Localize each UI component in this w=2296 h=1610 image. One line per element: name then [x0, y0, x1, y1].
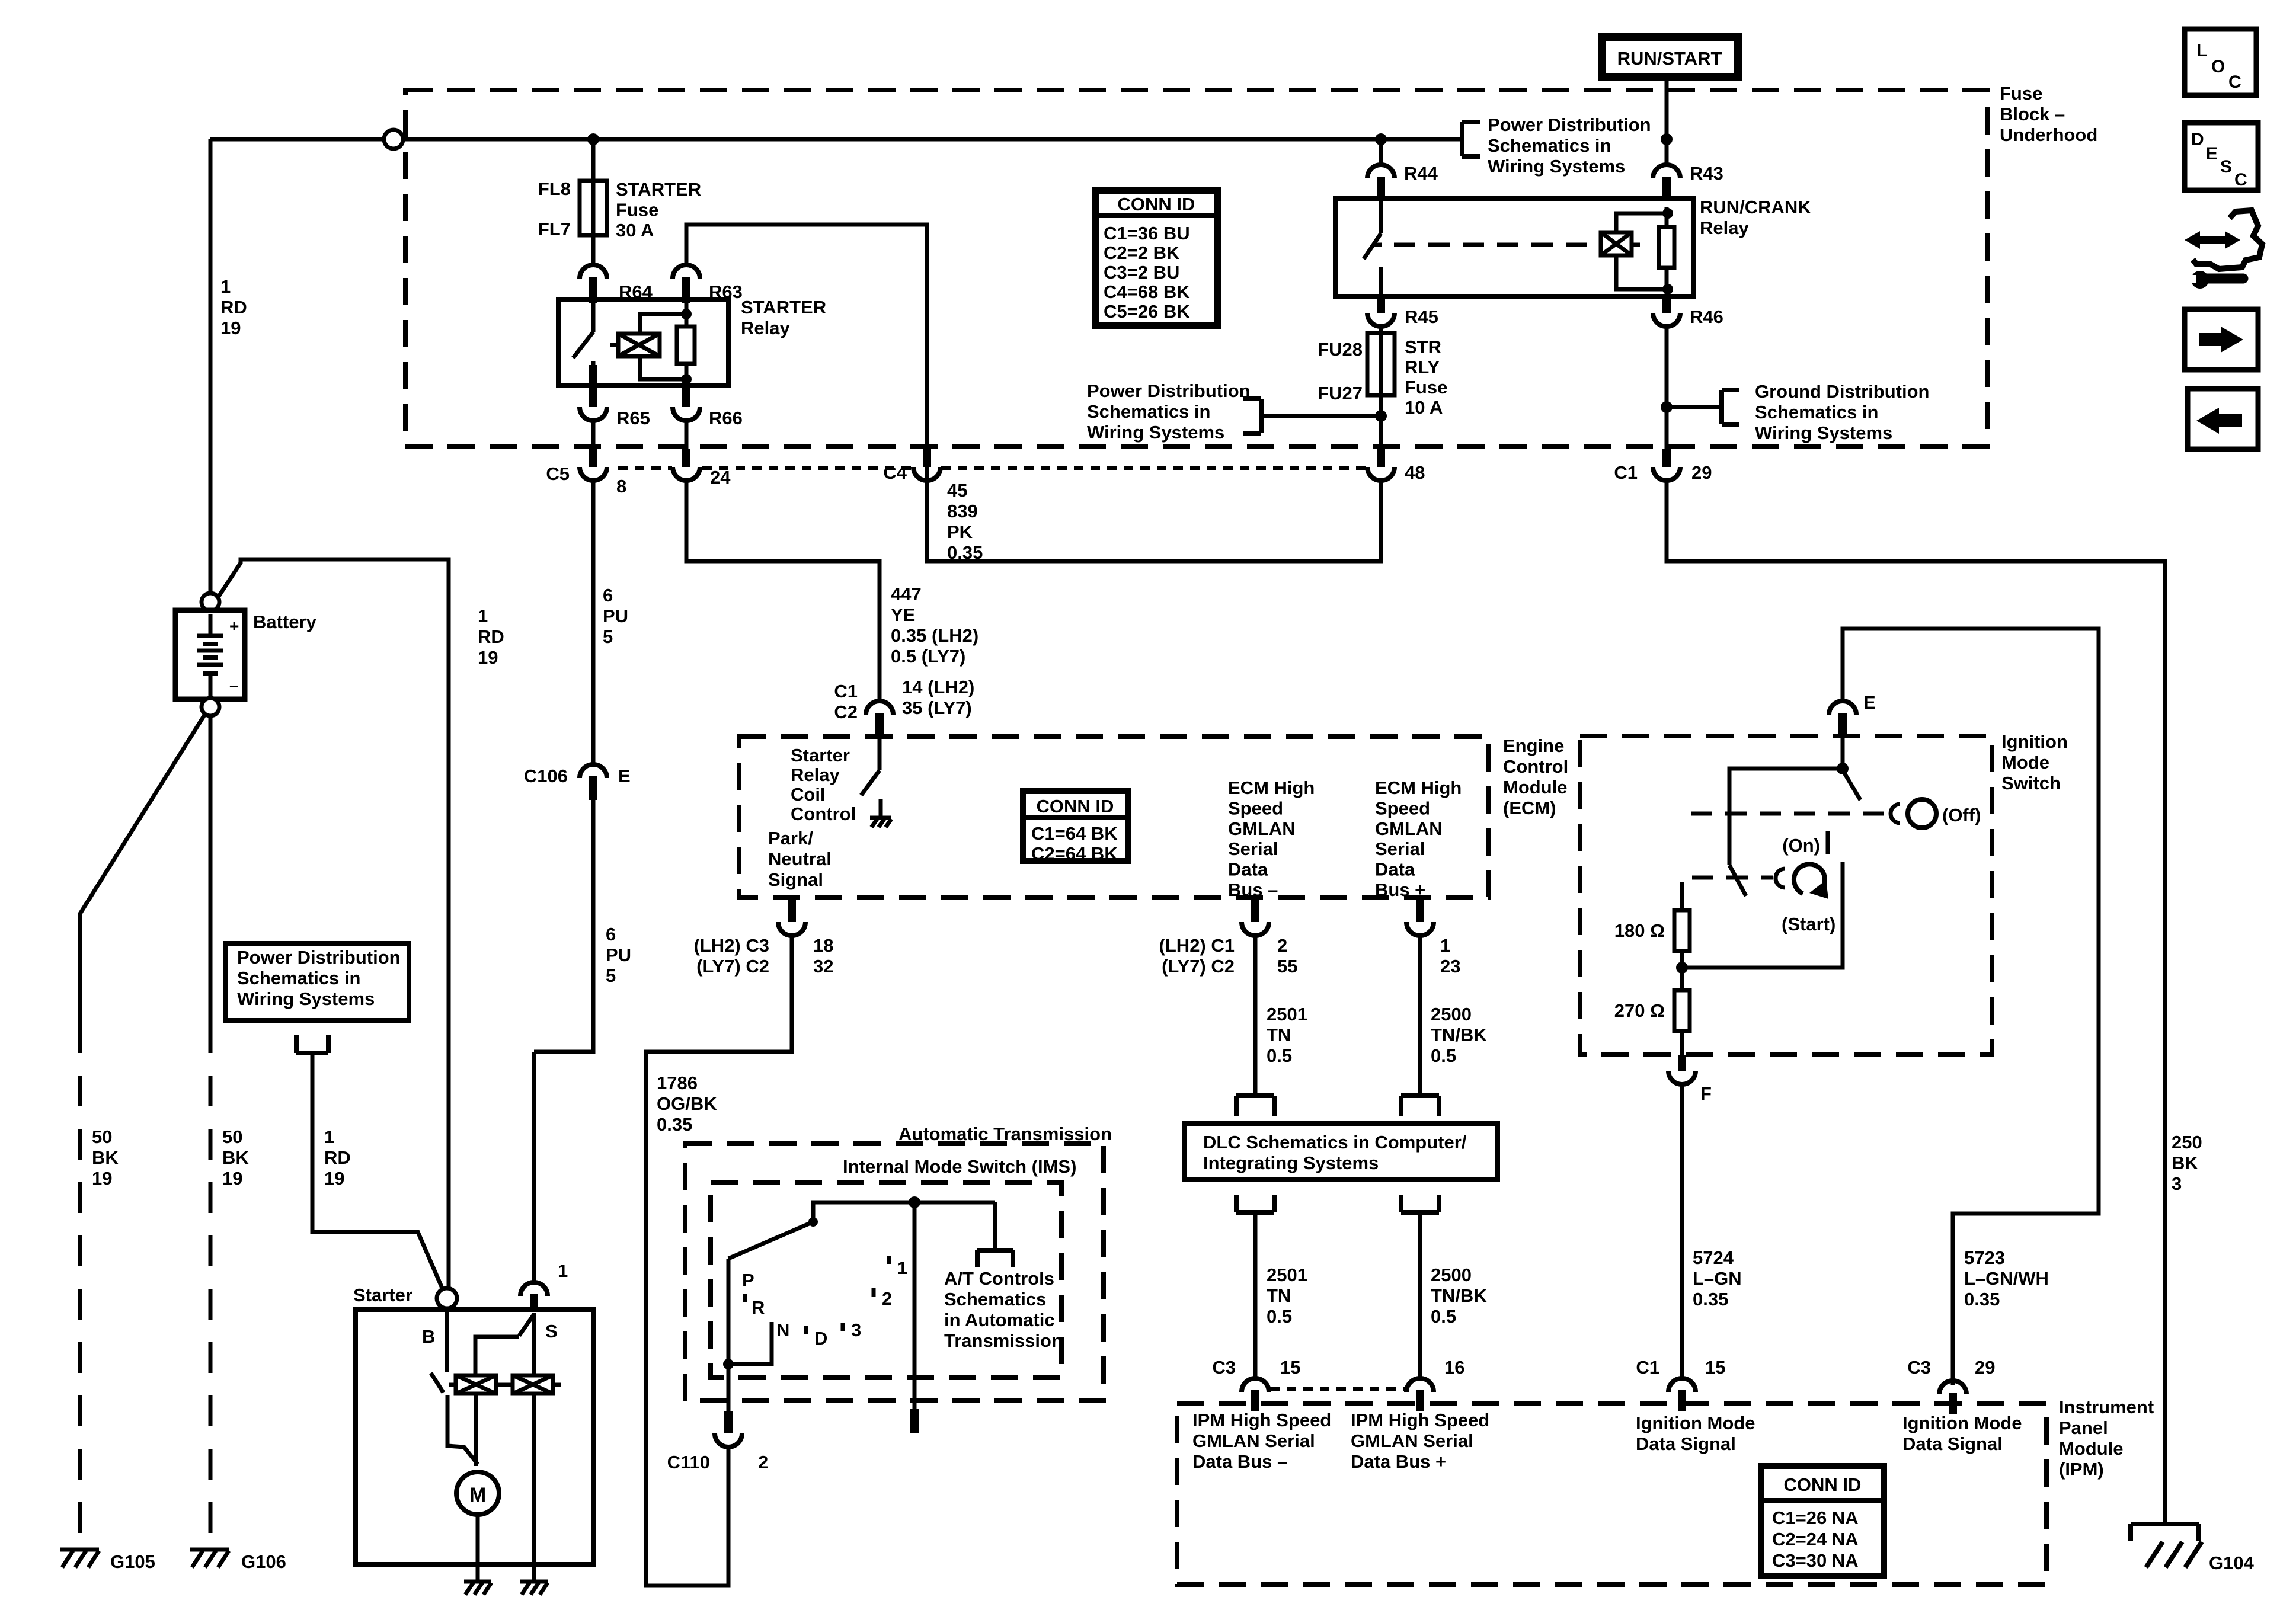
connector C106-E inline [580, 764, 607, 800]
svg-text:48: 48 [1405, 462, 1425, 483]
label 250 BK 3 [2172, 1132, 2202, 1194]
connector C110 [715, 1411, 742, 1447]
svg-text:0.35: 0.35 [1693, 1289, 1728, 1310]
label A/T Controls Schematics in Automatic Transmission [944, 1268, 1063, 1351]
ground starter solenoid [520, 1582, 548, 1595]
junction dot rc relay bottom [1662, 284, 1673, 295]
svg-text:F: F [1700, 1083, 1712, 1104]
wire E loop [1843, 629, 2099, 1385]
ECM starter relay control switch [861, 738, 880, 795]
svg-text:CONN ID: CONN ID [1037, 796, 1114, 817]
label (LH2)C1 (LY7)C2 [1159, 935, 1235, 977]
svg-text:C5=26 BK: C5=26 BK [1104, 301, 1190, 322]
svg-text:3: 3 [2172, 1173, 2182, 1194]
DLC schematics box [1184, 1124, 1498, 1179]
svg-text:Schematics in: Schematics in [237, 968, 360, 988]
IPM CONN ID box [1761, 1466, 1884, 1576]
junction dot ignition [1837, 763, 1849, 774]
connector F [1668, 1055, 1696, 1084]
svg-text:0.35: 0.35 [1964, 1289, 2000, 1310]
wire B terminal [445, 1308, 449, 1372]
svg-text:1: 1 [897, 1257, 907, 1278]
svg-text:N: N [776, 1320, 789, 1340]
wire: RUN/START stub to bus [1665, 81, 1669, 139]
svg-text:C: C [2228, 72, 2241, 92]
connector R46 [1653, 296, 1680, 327]
svg-text:2501: 2501 [1267, 1265, 1307, 1285]
svg-text:Module: Module [1503, 777, 1568, 798]
label (On) [1782, 835, 1820, 856]
RUN/CRANK relay box [1335, 199, 1694, 296]
svg-text:B: B [422, 1326, 435, 1347]
starter pull-in coil [449, 1375, 511, 1394]
svg-text:Fuse: Fuse [616, 200, 658, 220]
label 6 PU 5 (upper) [603, 585, 628, 647]
svg-text:C3: C3 [1212, 1357, 1236, 1378]
svg-text:Relay: Relay [741, 318, 790, 338]
connector C1-15 (IPM) [1668, 1378, 1696, 1411]
wire battery negative down [209, 716, 213, 1547]
IMS output pin [910, 1409, 919, 1433]
label 2 (C110) [758, 1452, 768, 1473]
svg-text:Data Bus –: Data Bus – [1192, 1451, 1287, 1472]
label R63 [709, 281, 743, 302]
label 2 55 [1277, 935, 1297, 977]
wire R46 down [1665, 327, 1669, 450]
svg-text:Fuse: Fuse [1405, 377, 1447, 398]
automatic transmission dashed box [685, 1144, 1104, 1401]
wire 6PU5 E to C106 [591, 481, 596, 764]
wire F to C1-15 (5724 L-GN) [1680, 1084, 1684, 1378]
label 1 (starter) [558, 1260, 568, 1281]
resistor 270 ohm [1674, 990, 1690, 1031]
connector C1C2 inline [866, 701, 893, 737]
label 16 (IPM) [1444, 1357, 1464, 1378]
svg-text:19: 19 [222, 1168, 242, 1189]
svg-text:PU: PU [603, 606, 628, 626]
svg-text:C: C [2234, 170, 2247, 190]
icon DESC box [2185, 123, 2258, 190]
svg-text:Wiring Systems: Wiring Systems [1488, 156, 1625, 177]
wire 24 to C1C2 (447 YE) [686, 481, 880, 701]
junction dot relay bottom [681, 374, 692, 385]
junction dot IMS P [723, 1359, 734, 1369]
svg-text:Wiring Systems: Wiring Systems [1755, 422, 1892, 443]
svg-text:0.5: 0.5 [1267, 1045, 1292, 1066]
svg-text:6: 6 [606, 924, 616, 945]
svg-text:839: 839 [947, 501, 978, 521]
icon car with arrows and wrench [2185, 210, 2262, 289]
wire battery to 1RD19 branch [217, 559, 449, 1287]
bracket above DLC left [1236, 1096, 1274, 1116]
svg-text:–: – [229, 676, 239, 694]
connector E [1829, 701, 1856, 734]
svg-text:E: E [1863, 692, 1876, 713]
battery terminal bottom circle [202, 698, 219, 716]
label (LH2)C3 (LY7)C2 [694, 935, 769, 977]
bracket: power distribution reference (top) [1462, 122, 1480, 156]
label: 1 RD 19 (battery feed) [220, 276, 247, 338]
label 2501 TN 0.5 upper [1267, 1004, 1307, 1066]
wire 180-270 [1680, 951, 1684, 990]
label R65 [616, 408, 650, 428]
ignition on contact tick [1826, 831, 1830, 854]
svg-text:G106: G106 [241, 1551, 286, 1572]
svg-text:M: M [469, 1484, 486, 1506]
label Ground Distribution Schematics in Wiring Systems [1755, 381, 1929, 443]
label E (C106) [618, 766, 631, 786]
starter relay resistor [677, 314, 695, 379]
label ECM High Speed GMLAN Serial Data Bus minus [1228, 777, 1315, 900]
connector gang dotted line C3 row [1270, 1387, 1405, 1391]
bracket below DLC right [1401, 1195, 1439, 1212]
svg-text:1786: 1786 [657, 1073, 698, 1093]
svg-text:15: 15 [1280, 1357, 1300, 1378]
svg-text:IPM High Speed: IPM High Speed [1351, 1410, 1489, 1430]
label 50 BK 19 (G106) [222, 1126, 249, 1189]
ground G104 [2131, 1524, 2202, 1567]
svg-text:1: 1 [478, 606, 488, 626]
label C1 C2 [834, 681, 858, 722]
junction dot R46/ground-dist [1661, 401, 1673, 413]
svg-text:S: S [2220, 157, 2232, 177]
junction dot IMS [909, 1196, 920, 1208]
svg-text:(On): (On) [1782, 835, 1820, 856]
bracket: power distribution reference (mid) [1243, 399, 1261, 433]
svg-text:(IPM): (IPM) [2059, 1459, 2104, 1480]
svg-text:A/T Controls: A/T Controls [944, 1268, 1054, 1289]
wire E into box [1841, 736, 1845, 769]
bracket A/T controls [977, 1202, 1013, 1267]
svg-text:G105: G105 [110, 1551, 155, 1572]
svg-text:0.5 (LY7): 0.5 (LY7) [891, 646, 965, 667]
junction: bulkhead connector circle on bus [384, 130, 403, 149]
wire 2501 TN upper [1253, 936, 1258, 1096]
starter motor M [456, 1472, 499, 1515]
IMS tick R [745, 1294, 765, 1318]
svg-text:Ignition Mode: Ignition Mode [1902, 1413, 2022, 1433]
starter S switch blade [519, 1314, 534, 1336]
connector R45 [1367, 296, 1395, 327]
label 180 ohm [1614, 920, 1665, 941]
svg-text:D: D [814, 1328, 827, 1349]
connector C3-15 [1242, 1378, 1269, 1411]
battery plus [229, 617, 239, 635]
internal mode switch dashed box [711, 1183, 1061, 1378]
ECM CONN ID box [1023, 791, 1128, 864]
ignition off circle [1908, 799, 1936, 828]
wire start output [1682, 862, 1843, 968]
wire coil1 to motor [474, 1394, 478, 1466]
ignition start row blade [1729, 865, 1746, 896]
junction dot FU27 lower [1375, 410, 1387, 422]
svg-text:19: 19 [478, 647, 498, 668]
wire R45 to fuse [1379, 327, 1383, 335]
label 15 (IPM right) [1705, 1357, 1725, 1378]
svg-text:C5: C5 [546, 463, 570, 484]
starter relay coil top wire [640, 314, 686, 334]
svg-text:Engine: Engine [1503, 735, 1564, 756]
svg-text:2: 2 [758, 1452, 768, 1473]
svg-text:Module: Module [2059, 1438, 2124, 1459]
connector 48 [1367, 449, 1395, 481]
ground starter motor [464, 1582, 491, 1595]
label 5724 L-GN 0.35 [1693, 1247, 1742, 1310]
svg-text:(LH2) C3: (LH2) C3 [694, 935, 769, 956]
junction dot bus/R43 [1661, 133, 1673, 145]
label P [742, 1270, 754, 1291]
svg-text:BK: BK [2172, 1153, 2198, 1173]
label N [776, 1320, 789, 1340]
ignition off contact arc [1891, 804, 1900, 823]
svg-text:2: 2 [882, 1288, 892, 1309]
fuse FU28/FU27 STR RLY 10A [1367, 333, 1395, 416]
svg-text:TN/BK: TN/BK [1431, 1285, 1487, 1306]
IMS N wire [728, 1322, 772, 1364]
svg-text:2: 2 [1277, 935, 1287, 956]
label 48 [1405, 462, 1425, 483]
label Power Distribution Schematics in Wiring Systems (mid) [1087, 380, 1251, 443]
connector C4 [913, 449, 941, 481]
svg-text:C1=36 BU: C1=36 BU [1104, 223, 1190, 244]
svg-text:Data Bus +: Data Bus + [1351, 1451, 1446, 1472]
svg-text:R43: R43 [1690, 163, 1723, 184]
svg-text:PK: PK [947, 521, 973, 542]
label Battery [253, 612, 317, 632]
svg-text:Power Distribution: Power Distribution [237, 947, 401, 968]
label E (ignition) [1863, 692, 1876, 713]
junction dot bus/FL8 [587, 133, 599, 145]
svg-text:L: L [2196, 41, 2207, 60]
wire 2500 TN/BK lower [1418, 1212, 1422, 1378]
svg-text:R66: R66 [709, 408, 743, 428]
svg-text:270 Ω: 270 Ω [1614, 1000, 1665, 1021]
starter relay coil [610, 334, 660, 356]
wire S terminal [532, 1313, 536, 1375]
label Park/Neutral Signal [768, 828, 832, 890]
ECM dashed box [739, 737, 1489, 897]
label ECM High Speed GMLAN Serial Data Bus plus [1375, 777, 1462, 900]
svg-text:30 A: 30 A [616, 220, 654, 241]
svg-text:FL7: FL7 [538, 219, 571, 239]
connector R65 [580, 385, 607, 421]
label 45 839 PK 0.35 [947, 480, 983, 563]
svg-text:19: 19 [92, 1168, 112, 1189]
connector C5-8 [580, 449, 607, 481]
wire hold-in coil to ground [532, 1394, 536, 1582]
svg-text:Bus –: Bus – [1228, 879, 1278, 900]
svg-text:C4: C4 [883, 462, 907, 483]
svg-text:Speed: Speed [1228, 798, 1283, 818]
IMS wiper blade [728, 1222, 813, 1259]
svg-text:RD: RD [220, 297, 247, 318]
label 29 (IPM) [1975, 1357, 1995, 1378]
icon right arrow box [2185, 309, 2258, 370]
svg-text:R: R [752, 1297, 765, 1318]
label C1 (29) [1614, 462, 1638, 483]
svg-text:Ignition Mode: Ignition Mode [1636, 1413, 1755, 1433]
svg-text:Schematics: Schematics [944, 1289, 1046, 1310]
wire to R66 [685, 379, 689, 386]
svg-text:RD: RD [478, 626, 504, 647]
label S [545, 1321, 558, 1342]
junction dot bus/R44 [1375, 133, 1387, 145]
svg-text:PU: PU [606, 945, 631, 965]
connector R43 [1653, 165, 1680, 198]
connector 16 [1406, 1378, 1434, 1411]
svg-text:0.35: 0.35 [657, 1114, 692, 1135]
svg-text:Fuse: Fuse [2000, 83, 2042, 104]
svg-text:ECM High: ECM High [1375, 777, 1462, 798]
svg-text:Coil: Coil [791, 784, 826, 805]
label 2500 TN/BK 0.5 upper [1431, 1004, 1487, 1066]
label FL7 [538, 219, 571, 239]
svg-text:Block –: Block – [2000, 104, 2065, 124]
svg-text:IPM High Speed: IPM High Speed [1192, 1410, 1331, 1430]
run/crank relay linkage dashed [1394, 243, 1594, 247]
IMS output wire [913, 1202, 917, 1409]
svg-text:2500: 2500 [1431, 1265, 1472, 1285]
connector R64 [580, 265, 607, 303]
svg-text:5: 5 [606, 965, 616, 986]
label Starter [353, 1285, 412, 1305]
svg-text:STR: STR [1405, 337, 1441, 357]
svg-text:Data: Data [1375, 859, 1415, 880]
label STARTER Relay [741, 297, 826, 338]
wire battery negative diagonal to G105 [80, 714, 205, 1547]
svg-text:1: 1 [324, 1126, 334, 1147]
label C110 [667, 1452, 710, 1473]
fuse FL8/FL7 STARTER 30A [580, 139, 607, 265]
svg-text:Mode: Mode [2001, 752, 2049, 773]
svg-text:2501: 2501 [1267, 1004, 1307, 1025]
svg-text:RLY: RLY [1405, 357, 1440, 377]
svg-text:0.5: 0.5 [1267, 1306, 1292, 1327]
label G105 [110, 1551, 155, 1572]
svg-text:Integrating Systems: Integrating Systems [1203, 1153, 1379, 1173]
svg-text:Internal Mode Switch (IMS): Internal Mode Switch (IMS) [843, 1156, 1076, 1177]
wire S above box [532, 1052, 536, 1282]
wire: battery feed vertical (1 RD 19) [209, 139, 213, 596]
wire bracket to 48 [1261, 416, 1381, 450]
IMS tick 2 [874, 1288, 892, 1309]
icon left arrow box [2188, 389, 2258, 449]
svg-text:C1: C1 [834, 681, 858, 702]
svg-text:Signal: Signal [768, 869, 823, 890]
svg-text:L–GN: L–GN [1693, 1268, 1742, 1289]
svg-text:Power Distribution: Power Distribution [1087, 380, 1251, 401]
svg-text:GMLAN Serial: GMLAN Serial [1192, 1430, 1315, 1451]
connector R66 [673, 385, 700, 421]
run/crank relay resistor [1659, 207, 1674, 296]
svg-text:RD: RD [324, 1147, 351, 1168]
svg-text:19: 19 [220, 318, 241, 338]
svg-text:250: 250 [2172, 1132, 2202, 1153]
svg-text:3: 3 [851, 1320, 861, 1340]
wire ignition left branch [1729, 769, 1843, 865]
svg-text:Relay: Relay [791, 764, 840, 785]
svg-text:0.5: 0.5 [1431, 1045, 1456, 1066]
starter relay coil bottom wire [640, 356, 686, 379]
ignition start row dashed [1692, 876, 1773, 880]
wire 180 top [1680, 882, 1684, 910]
svg-text:14 (LH2): 14 (LH2) [902, 677, 974, 697]
svg-text:50: 50 [222, 1126, 242, 1147]
label R45 [1405, 306, 1438, 327]
svg-text:5: 5 [603, 626, 613, 647]
label RUN/CRANK Relay [1700, 197, 1811, 238]
svg-text:Automatic Transmission: Automatic Transmission [898, 1124, 1112, 1144]
svg-text:Speed: Speed [1375, 798, 1430, 818]
label 15 (IPM) [1280, 1357, 1300, 1378]
label G106 [241, 1551, 286, 1572]
wire R65 to C5 [591, 421, 596, 450]
svg-text:STARTER: STARTER [741, 297, 826, 318]
svg-text:Instrument: Instrument [2059, 1397, 2154, 1417]
svg-text:C3=2 BU: C3=2 BU [1104, 262, 1179, 283]
svg-text:R44: R44 [1404, 163, 1438, 184]
svg-text:Wiring Systems: Wiring Systems [1087, 422, 1224, 443]
connector C1-29 [1653, 449, 1680, 481]
svg-text:E: E [618, 766, 631, 786]
svg-text:Schematics in: Schematics in [1488, 135, 1611, 156]
battery plates [197, 614, 223, 699]
label C4 [883, 462, 907, 483]
svg-text:BK: BK [92, 1147, 119, 1168]
label R64 [619, 281, 653, 302]
svg-text:S: S [545, 1321, 558, 1342]
label STARTER Fuse 30 A [616, 179, 701, 241]
svg-text:C1=26 NA: C1=26 NA [1772, 1507, 1859, 1528]
svg-text:Starter: Starter [791, 745, 850, 766]
svg-text:(ECM): (ECM) [1503, 798, 1556, 818]
label 14(LH2) 35(LY7) [902, 677, 974, 718]
svg-text:GMLAN: GMLAN [1228, 818, 1296, 839]
svg-text:C2=64 BK: C2=64 BK [1031, 843, 1118, 864]
battery terminal top circle [202, 593, 219, 611]
svg-text:ECM High: ECM High [1228, 777, 1315, 798]
svg-text:Control: Control [791, 804, 856, 824]
label FU27 [1318, 383, 1363, 404]
IMS top wire [813, 1202, 995, 1221]
label 29 [1691, 462, 1712, 483]
svg-text:(LY7) C2: (LY7) C2 [1162, 956, 1235, 977]
svg-text:C4=68 BK: C4=68 BK [1104, 281, 1190, 302]
svg-text:Serial: Serial [1228, 838, 1278, 859]
battery box [175, 610, 245, 699]
label 1786 OG/BK 0.35 [657, 1073, 717, 1135]
svg-text:OG/BK: OG/BK [657, 1093, 717, 1114]
power distribution schematics box (left) [226, 943, 409, 1020]
svg-text:Bus +: Bus + [1375, 879, 1425, 900]
svg-text:Underhood: Underhood [2000, 124, 2097, 145]
starter solenoid switch blade [431, 1373, 443, 1393]
label C5 [546, 463, 570, 484]
bracket under power dist box [296, 1035, 328, 1053]
svg-text:FL8: FL8 [538, 178, 571, 199]
label 18 32 [813, 935, 833, 977]
label B [422, 1326, 435, 1347]
wire R63 pin to dot [685, 303, 689, 314]
svg-text:Serial: Serial [1375, 838, 1425, 859]
junction dot resistor mid [1676, 962, 1688, 974]
battery minus [229, 676, 239, 694]
svg-text:6: 6 [603, 585, 613, 606]
label 1 RD 19 (power dist) [324, 1126, 351, 1189]
label 447 YE 0.35(LH2) 0.5(LY7) [891, 584, 978, 667]
bracket below DLC left [1236, 1195, 1274, 1212]
svg-text:(LH2) C1: (LH2) C1 [1159, 935, 1235, 956]
